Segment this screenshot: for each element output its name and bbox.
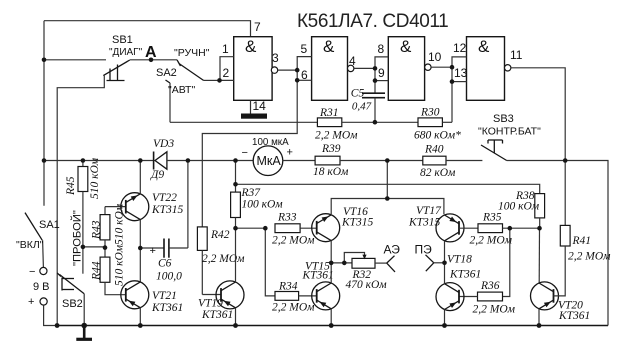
switch SB1 (103, 60, 130, 81)
wire pin 10 to gate 4 inputs (431, 66, 452, 68)
wire plus terminal to bottom bus (44, 305, 58, 325)
node R37 bottom junction (233, 226, 238, 231)
node VT22 emitter tap (138, 158, 143, 163)
node R38 bottom junction (537, 226, 542, 231)
resistor R41 (560, 225, 611, 262)
transistor VT19 КТ361 (198, 281, 244, 321)
battery plus terminal (40, 298, 47, 305)
node gate2 in lower (295, 78, 300, 83)
svg-text:7: 7 (254, 20, 261, 34)
svg-text:82 кОм: 82 кОм (420, 167, 456, 179)
switch SB3 (481, 140, 507, 161)
node A wire (130, 59, 177, 61)
bottom common bus (57, 325, 608, 327)
svg-text:+: + (28, 296, 34, 308)
svg-text:SA1: SA1 (39, 219, 60, 231)
svg-text:R39: R39 (321, 143, 341, 155)
wire pin 13 stub (452, 81, 467, 83)
node pin2 junction (217, 78, 222, 83)
wire pin 11 output down to measure bus (511, 68, 565, 226)
wire VT21 emitter to bus (139, 308, 141, 326)
node common at ground (81, 323, 87, 329)
wire R39 to R40 (340, 160, 423, 162)
svg-text:R43: R43 (91, 220, 103, 240)
svg-text:2,2 МОм: 2,2 МОм (272, 235, 315, 247)
wire R35 right to R38 column (503, 227, 540, 229)
resistor R33 (272, 212, 315, 247)
node R33 left junction (263, 226, 268, 231)
svg-text:КТ315: КТ315 (408, 217, 441, 229)
svg-text:КТ361: КТ361 (151, 302, 183, 314)
battery minus terminal (40, 267, 47, 274)
svg-text:5: 5 (301, 42, 308, 56)
wire R42 to VT19 base (202, 294, 221, 296)
svg-text:SB3: SB3 (493, 113, 514, 125)
АВТ contact and drop wire (166, 80, 171, 122)
svg-text:510 кОм: 510 кОм (114, 203, 126, 245)
transistor VT21 КТ361 (121, 281, 183, 314)
svg-text:0,47: 0,47 (352, 101, 372, 113)
svg-text:510 кОм: 510 кОм (89, 157, 101, 199)
svg-text:VD3: VD3 (153, 138, 174, 150)
node common at VT15 (329, 323, 334, 328)
wire R31 to R30 (342, 121, 418, 123)
transistor VT20 КТ361 (531, 282, 591, 322)
wire gate4 input riser to R30 (452, 57, 467, 122)
node R45 bottom junction (81, 245, 86, 250)
svg-text:VT21: VT21 (152, 290, 177, 302)
wire VT19 bottom to bus (235, 308, 237, 326)
svg-text:14: 14 (253, 99, 267, 113)
wire VT16 collector down (330, 241, 332, 263)
svg-text:4: 4 (349, 54, 356, 68)
node common at VT21 (138, 323, 143, 328)
wire SB1 feed (44, 59, 106, 61)
node VT15/VT16 junction (329, 261, 334, 266)
node VT17/VT18 junction (442, 261, 447, 266)
right edge return wire (507, 161, 608, 326)
resistor R34 (272, 281, 315, 314)
rail R37 to R38 (236, 184, 540, 193)
svg-text:1: 1 (222, 42, 229, 56)
svg-text:2,2 МОм: 2,2 МОм (272, 302, 315, 314)
svg-text:VT22: VT22 (152, 192, 177, 204)
svg-text:R37: R37 (241, 187, 262, 199)
svg-text:SA2: SA2 (156, 67, 177, 79)
node gate4 in lower (450, 79, 455, 84)
svg-text:2,2 МОм: 2,2 МОм (568, 251, 611, 263)
node collector rail tap (385, 196, 390, 201)
wire R37 junction to R33 (236, 227, 266, 229)
wire R36 to VT18 base (459, 296, 478, 298)
node common at VT20 (537, 323, 542, 328)
svg-text:2,2 МОм: 2,2 МОм (202, 253, 245, 265)
svg-text:"ДИАГ": "ДИАГ" (109, 47, 143, 58)
node common at VT19 (233, 323, 238, 328)
svg-text:R31: R31 (319, 107, 339, 119)
svg-text:VT19: VT19 (198, 298, 223, 310)
svg-text:2,2 МОм: 2,2 МОм (473, 304, 516, 316)
svg-text:АЭ: АЭ (384, 243, 401, 257)
svg-text:КТ361: КТ361 (201, 309, 233, 321)
wire pin 3 to gate 2 inputs (278, 69, 298, 71)
wire pin 4 to gate 3 inputs (354, 67, 375, 69)
node R39/R40 junction (385, 158, 390, 163)
pin 14 wire (250, 100, 252, 113)
resistor R43 (91, 203, 126, 257)
wire VT19 top to R37 junction (235, 228, 237, 282)
pin 14 ground bar (241, 114, 267, 119)
ground chassis symbol (76, 326, 92, 340)
resistor R44 (91, 244, 126, 295)
resistor R36 (473, 280, 516, 316)
op-amp U1.2 NAND gate (312, 37, 354, 101)
node pin11/R41 column at bus (563, 158, 568, 163)
wire R33/R34 connector (265, 228, 275, 296)
resistor R38 (498, 190, 545, 228)
wire VT17 collector down (444, 241, 446, 263)
wire R30 right up to gate4 riser (442, 121, 452, 123)
svg-text:"КОНТР.БАТ": "КОНТР.БАТ" (478, 126, 541, 138)
svg-text:3: 3 (272, 51, 279, 65)
wire R41 to VT20 base (554, 246, 566, 296)
transistor VT15 КТ361 (302, 261, 340, 310)
wire VT18 top to junction (444, 263, 446, 284)
svg-text:+: + (150, 245, 156, 257)
svg-text:К561ЛА7. CD4011: К561ЛА7. CD4011 (297, 11, 448, 32)
node C6 riser tap (186, 158, 191, 163)
svg-text:10: 10 (428, 50, 442, 64)
capacitor C6 (140, 239, 188, 283)
wire SB1 pole down and to common (57, 76, 104, 326)
svg-text:9: 9 (378, 66, 385, 80)
node common at VT18 (442, 323, 447, 328)
wire R45 junction to R43/R44 junction (83, 246, 105, 248)
op-amp U1.3 NAND gate (388, 37, 431, 101)
wire pin 6 stub (297, 79, 311, 81)
capacitor C5 (351, 88, 385, 113)
svg-text:КТ361: КТ361 (449, 269, 481, 281)
riser R39/R40 junction to collector rail (386, 161, 388, 199)
wire pin 9 stub (375, 80, 388, 82)
resistor R30 (414, 107, 461, 142)
svg-text:КТ361: КТ361 (558, 310, 590, 322)
transistor VT18 КТ361 (436, 254, 481, 311)
resistor R40 (420, 144, 456, 180)
svg-text:C6: C6 (158, 258, 172, 270)
svg-text:SB1: SB1 (112, 34, 133, 46)
svg-text:"АВТ": "АВТ" (168, 84, 195, 96)
svg-text:"ВКЛ": "ВКЛ" (16, 239, 44, 251)
resistor R35 (470, 212, 513, 247)
svg-text:R33: R33 (277, 212, 297, 224)
wire VT18 emitter to bus (444, 310, 446, 326)
wire SB2 pole to bottom bus (83, 294, 85, 326)
transistor VT22 КТ315 (121, 192, 184, 221)
wire R33 to VT16 base (300, 227, 317, 229)
svg-text:КТ361: КТ361 (302, 270, 334, 282)
switch SB2 (57, 247, 84, 294)
wire top rail from left bus to pin 7 (44, 21, 251, 37)
wire VT15 emitter to bus (330, 309, 332, 326)
node R43/R44 junction (103, 245, 108, 250)
svg-text:510 кОм: 510 кОм (114, 244, 126, 286)
transistor VT16 КТ315 (312, 206, 374, 242)
node R35 right junction (508, 226, 513, 231)
node R37 top tap (233, 158, 238, 163)
node R37 rail tap (233, 182, 238, 187)
svg-text:−: − (242, 147, 248, 159)
op-amp U1.1 NAND gate К561ЛА7 (234, 37, 278, 101)
wire AVT bus to R31 (170, 121, 317, 123)
svg-text:R40: R40 (424, 144, 444, 156)
wire R32 to AE electrode (375, 262, 387, 264)
microammeter PA1 (242, 137, 293, 176)
switch SA2 lever (177, 60, 204, 81)
wire R35/R36 connector (503, 228, 510, 296)
resistor R37 (231, 161, 284, 229)
svg-text:2,2 МОм: 2,2 МОм (315, 130, 358, 142)
node A junction (149, 58, 154, 63)
node C5 bottom (373, 120, 378, 125)
wire gate2 input riser (202, 57, 311, 227)
svg-text:VT17: VT17 (416, 205, 442, 217)
svg-text:13: 13 (454, 66, 468, 80)
diode VD3 Д9 (150, 138, 174, 181)
svg-text:18 кОм: 18 кОм (313, 166, 349, 178)
svg-text:R35: R35 (482, 212, 502, 224)
wire R34 to VT15 base (299, 295, 317, 297)
svg-text:C5: C5 (351, 88, 365, 100)
wire VT15 top to junction (330, 263, 332, 283)
svg-text:ПЭ: ПЭ (415, 243, 433, 257)
svg-text:R44: R44 (91, 261, 103, 281)
svg-text:R34: R34 (278, 281, 298, 293)
svg-text:R30: R30 (420, 107, 440, 119)
svg-text:8: 8 (378, 42, 385, 56)
node gate2 in upper (295, 68, 300, 73)
potentiometer R32 470 кОм (344, 253, 387, 292)
svg-text:2,2 МОм: 2,2 МОм (470, 235, 513, 247)
resistor R39 (313, 143, 349, 178)
wire measure bus left segment (44, 160, 154, 162)
resistor R31 (315, 107, 358, 142)
wire VD3 to C6 riser (167, 160, 253, 162)
resistor R45 (65, 157, 101, 247)
node left bus at measure row (42, 158, 47, 163)
wire R40 to SB3 (446, 160, 482, 162)
svg-text:470 кОм: 470 кОм (346, 279, 388, 291)
node R32 wiper tap (342, 261, 347, 266)
wire gate1 input pins 1-2 (220, 57, 234, 81)
node gate4 in upper (450, 65, 455, 70)
wire VT22 base from R43 (105, 206, 126, 208)
wire SA2 pole to pin 2 (204, 79, 220, 81)
svg-text:R36: R36 (480, 280, 500, 292)
wire R38 column down to VT20 (538, 228, 540, 283)
collector rail VT16-VT17 (331, 199, 444, 215)
node gate3 in lower (373, 78, 378, 83)
transistor VT17 КТ315 (408, 205, 464, 242)
svg-text:R42: R42 (210, 229, 230, 241)
op-amp U1.4 NAND gate (467, 37, 511, 101)
svg-text:SB2: SB2 (62, 298, 83, 310)
wire C5 bottom to bus (374, 98, 376, 123)
svg-text:&: & (400, 37, 412, 56)
svg-text:2: 2 (223, 66, 230, 80)
wire VT17 base to R35 (459, 227, 478, 229)
svg-text:КТ315: КТ315 (151, 204, 184, 216)
wire meter plus to R39 (283, 160, 315, 162)
svg-text:100 кОм: 100 кОм (242, 199, 284, 211)
svg-text:680 кОм*: 680 кОм* (414, 130, 461, 142)
svg-text:R45: R45 (65, 176, 77, 196)
svg-text:100 мкА: 100 мкА (252, 137, 289, 148)
svg-text:МкА: МкА (257, 154, 282, 168)
svg-text:+: + (287, 147, 293, 159)
svg-text:11: 11 (510, 48, 523, 62)
wire VT20 emitter to bus (538, 309, 540, 326)
svg-text:100,0: 100,0 (156, 271, 182, 283)
svg-text:12: 12 (453, 41, 467, 55)
node SB1 tap (42, 58, 47, 63)
node gate3 in upper (373, 66, 378, 71)
svg-text:&: & (323, 37, 335, 56)
resistor R42 (197, 227, 245, 295)
svg-text:R41: R41 (572, 235, 592, 247)
wire C6 riser to measure bus (187, 161, 189, 249)
svg-text:9 В: 9 В (33, 281, 50, 293)
wire VT22 collector to VT21 (139, 220, 141, 282)
svg-text:−: − (29, 266, 35, 278)
wire gate3 input riser to C5 (375, 57, 388, 93)
node R45 top (81, 158, 86, 163)
svg-text:"ПРОБОЙ": "ПРОБОЙ" (71, 210, 84, 266)
wire junction to R32 (331, 262, 352, 264)
wire left vertical bus (43, 21, 45, 206)
svg-text:Д9: Д9 (150, 169, 164, 181)
svg-text:VT18: VT18 (447, 254, 472, 266)
svg-text:КТ315: КТ315 (341, 217, 374, 229)
svg-text:100 кОм: 100 кОм (498, 201, 540, 213)
switch SA1 (25, 213, 43, 268)
svg-text:&: & (478, 37, 490, 56)
wire VT22 emitter up to bus (139, 161, 141, 194)
node АЭ electrode (384, 243, 401, 272)
node C6 left tap (138, 246, 143, 251)
svg-text:&: & (245, 37, 257, 56)
node ПЭ electrode (415, 243, 445, 272)
svg-text:"РУЧН": "РУЧН" (174, 47, 210, 59)
node common at SB1 line (55, 323, 60, 328)
